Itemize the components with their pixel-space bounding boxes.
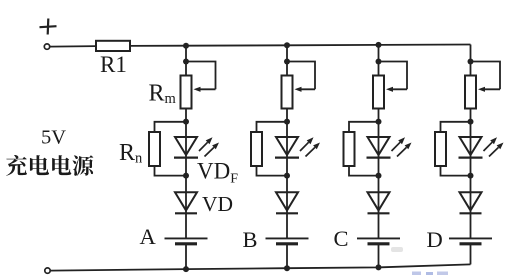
node bottom rail junction branch 3 <box>376 264 382 270</box>
svg-text:B: B <box>243 227 258 252</box>
wire branch 2 main vertical <box>286 45 288 268</box>
potentiometer Rm branch 3 <box>373 76 384 109</box>
resistor Rn branch 3 <box>344 132 355 166</box>
wire Rn sub-branch branch 4 <box>441 122 471 176</box>
node wiper tap junction branch 1 <box>183 59 189 65</box>
node wiper tap junction branch 4 <box>468 59 474 65</box>
wire rheostat loop branch 1 <box>186 62 216 90</box>
terminal plus sign <box>40 19 57 35</box>
svg-text:VDF: VDF <box>197 159 238 187</box>
resistor Rn branch 1 <box>149 132 160 166</box>
node LED bottom junction branch 4 <box>468 173 474 179</box>
svg-text:Rm: Rm <box>149 81 177 108</box>
positive input terminal <box>44 44 49 49</box>
resistor Rn branch 2 <box>251 132 262 166</box>
battery cell C branch 3 <box>357 238 400 243</box>
wire Rn sub-branch branch 2 <box>257 122 288 176</box>
wire branch 4 main vertical <box>470 45 472 265</box>
battery cell B branch 2 <box>266 238 309 243</box>
wire Rn sub-branch branch 3 <box>349 122 379 176</box>
label C <box>334 226 349 251</box>
top supply rail wire <box>50 45 471 47</box>
svg-text:VD: VD <box>202 192 233 216</box>
node LED bottom junction branch 2 <box>284 173 290 179</box>
potentiometer Rm branch 4 <box>465 76 476 109</box>
label B <box>243 227 258 252</box>
svg-text:Rn: Rn <box>119 140 143 167</box>
faint scan artifact marks bottom edge <box>391 247 448 275</box>
svg-text:C: C <box>334 226 349 251</box>
diode VD branch 1 <box>175 192 197 213</box>
wire rheostat loop branch 4 <box>471 62 501 90</box>
negative output terminal <box>45 268 50 273</box>
LED VDF branch 1 <box>174 137 198 158</box>
label 充电电源 (charging power supply) <box>6 155 93 176</box>
diode VD branch 4 <box>460 192 482 213</box>
LED VDF branch 2 <box>275 137 299 158</box>
svg-text:A: A <box>140 224 157 249</box>
battery cell A branch 1 <box>165 238 208 243</box>
wire rheostat loop branch 3 <box>379 62 408 90</box>
wire branch 1 main vertical <box>185 46 187 269</box>
LED light arrows branch 1 <box>199 137 219 156</box>
LED VDF branch 3 <box>367 137 391 158</box>
label 5V <box>41 127 66 149</box>
LED light arrows branch 3 <box>392 137 412 156</box>
bottom return rail wire <box>51 264 471 270</box>
node Rn/LED top junction branch 1 <box>183 119 189 125</box>
node LED bottom junction branch 1 <box>183 173 189 179</box>
LED light arrows branch 4 <box>484 137 504 156</box>
node top rail junction branch 3 <box>376 42 382 48</box>
svg-text:D: D <box>427 227 443 252</box>
wiper arrow of potentiometer Rm branch 2 <box>295 87 316 92</box>
node top rail junction branch 1 <box>183 43 189 49</box>
label R1 <box>100 52 127 77</box>
resistor R1 <box>96 41 130 51</box>
resistor Rn branch 4 <box>435 132 446 166</box>
wiper arrow of potentiometer Rm branch 1 <box>194 87 216 92</box>
wire rheostat loop branch 2 <box>287 62 315 90</box>
label VD <box>202 192 233 216</box>
node wiper tap junction branch 3 <box>376 59 382 65</box>
wire branch 3 main vertical <box>378 45 380 268</box>
label Rn <box>119 140 143 167</box>
wire Rn sub-branch branch 1 <box>155 122 187 176</box>
potentiometer Rm branch 1 <box>181 76 192 109</box>
node Rn/LED top junction branch 4 <box>468 119 474 125</box>
label Rm <box>149 81 177 108</box>
node LED bottom junction branch 3 <box>376 173 382 179</box>
node bottom rail junction branch 1 <box>183 266 189 272</box>
node wiper tap junction branch 2 <box>284 59 290 65</box>
battery cell D branch 4 <box>449 238 492 243</box>
LED VDF branch 4 <box>459 137 483 158</box>
svg-text:R1: R1 <box>100 52 127 77</box>
diode VD branch 2 <box>276 192 298 213</box>
label A <box>140 224 157 249</box>
wiper arrow of potentiometer Rm branch 4 <box>478 87 500 92</box>
node Rn/LED top junction branch 2 <box>284 119 290 125</box>
label VDF <box>197 159 238 187</box>
wiper arrow of potentiometer Rm branch 3 <box>386 87 407 92</box>
svg-text:5V: 5V <box>41 127 66 149</box>
node bottom rail junction branch 2 <box>284 265 290 271</box>
node Rn/LED top junction branch 3 <box>376 119 382 125</box>
potentiometer Rm branch 2 <box>282 76 293 109</box>
diode VD branch 3 <box>368 192 390 213</box>
node top rail junction branch 2 <box>284 42 290 48</box>
label D <box>427 227 443 252</box>
LED light arrows branch 2 <box>300 137 320 156</box>
